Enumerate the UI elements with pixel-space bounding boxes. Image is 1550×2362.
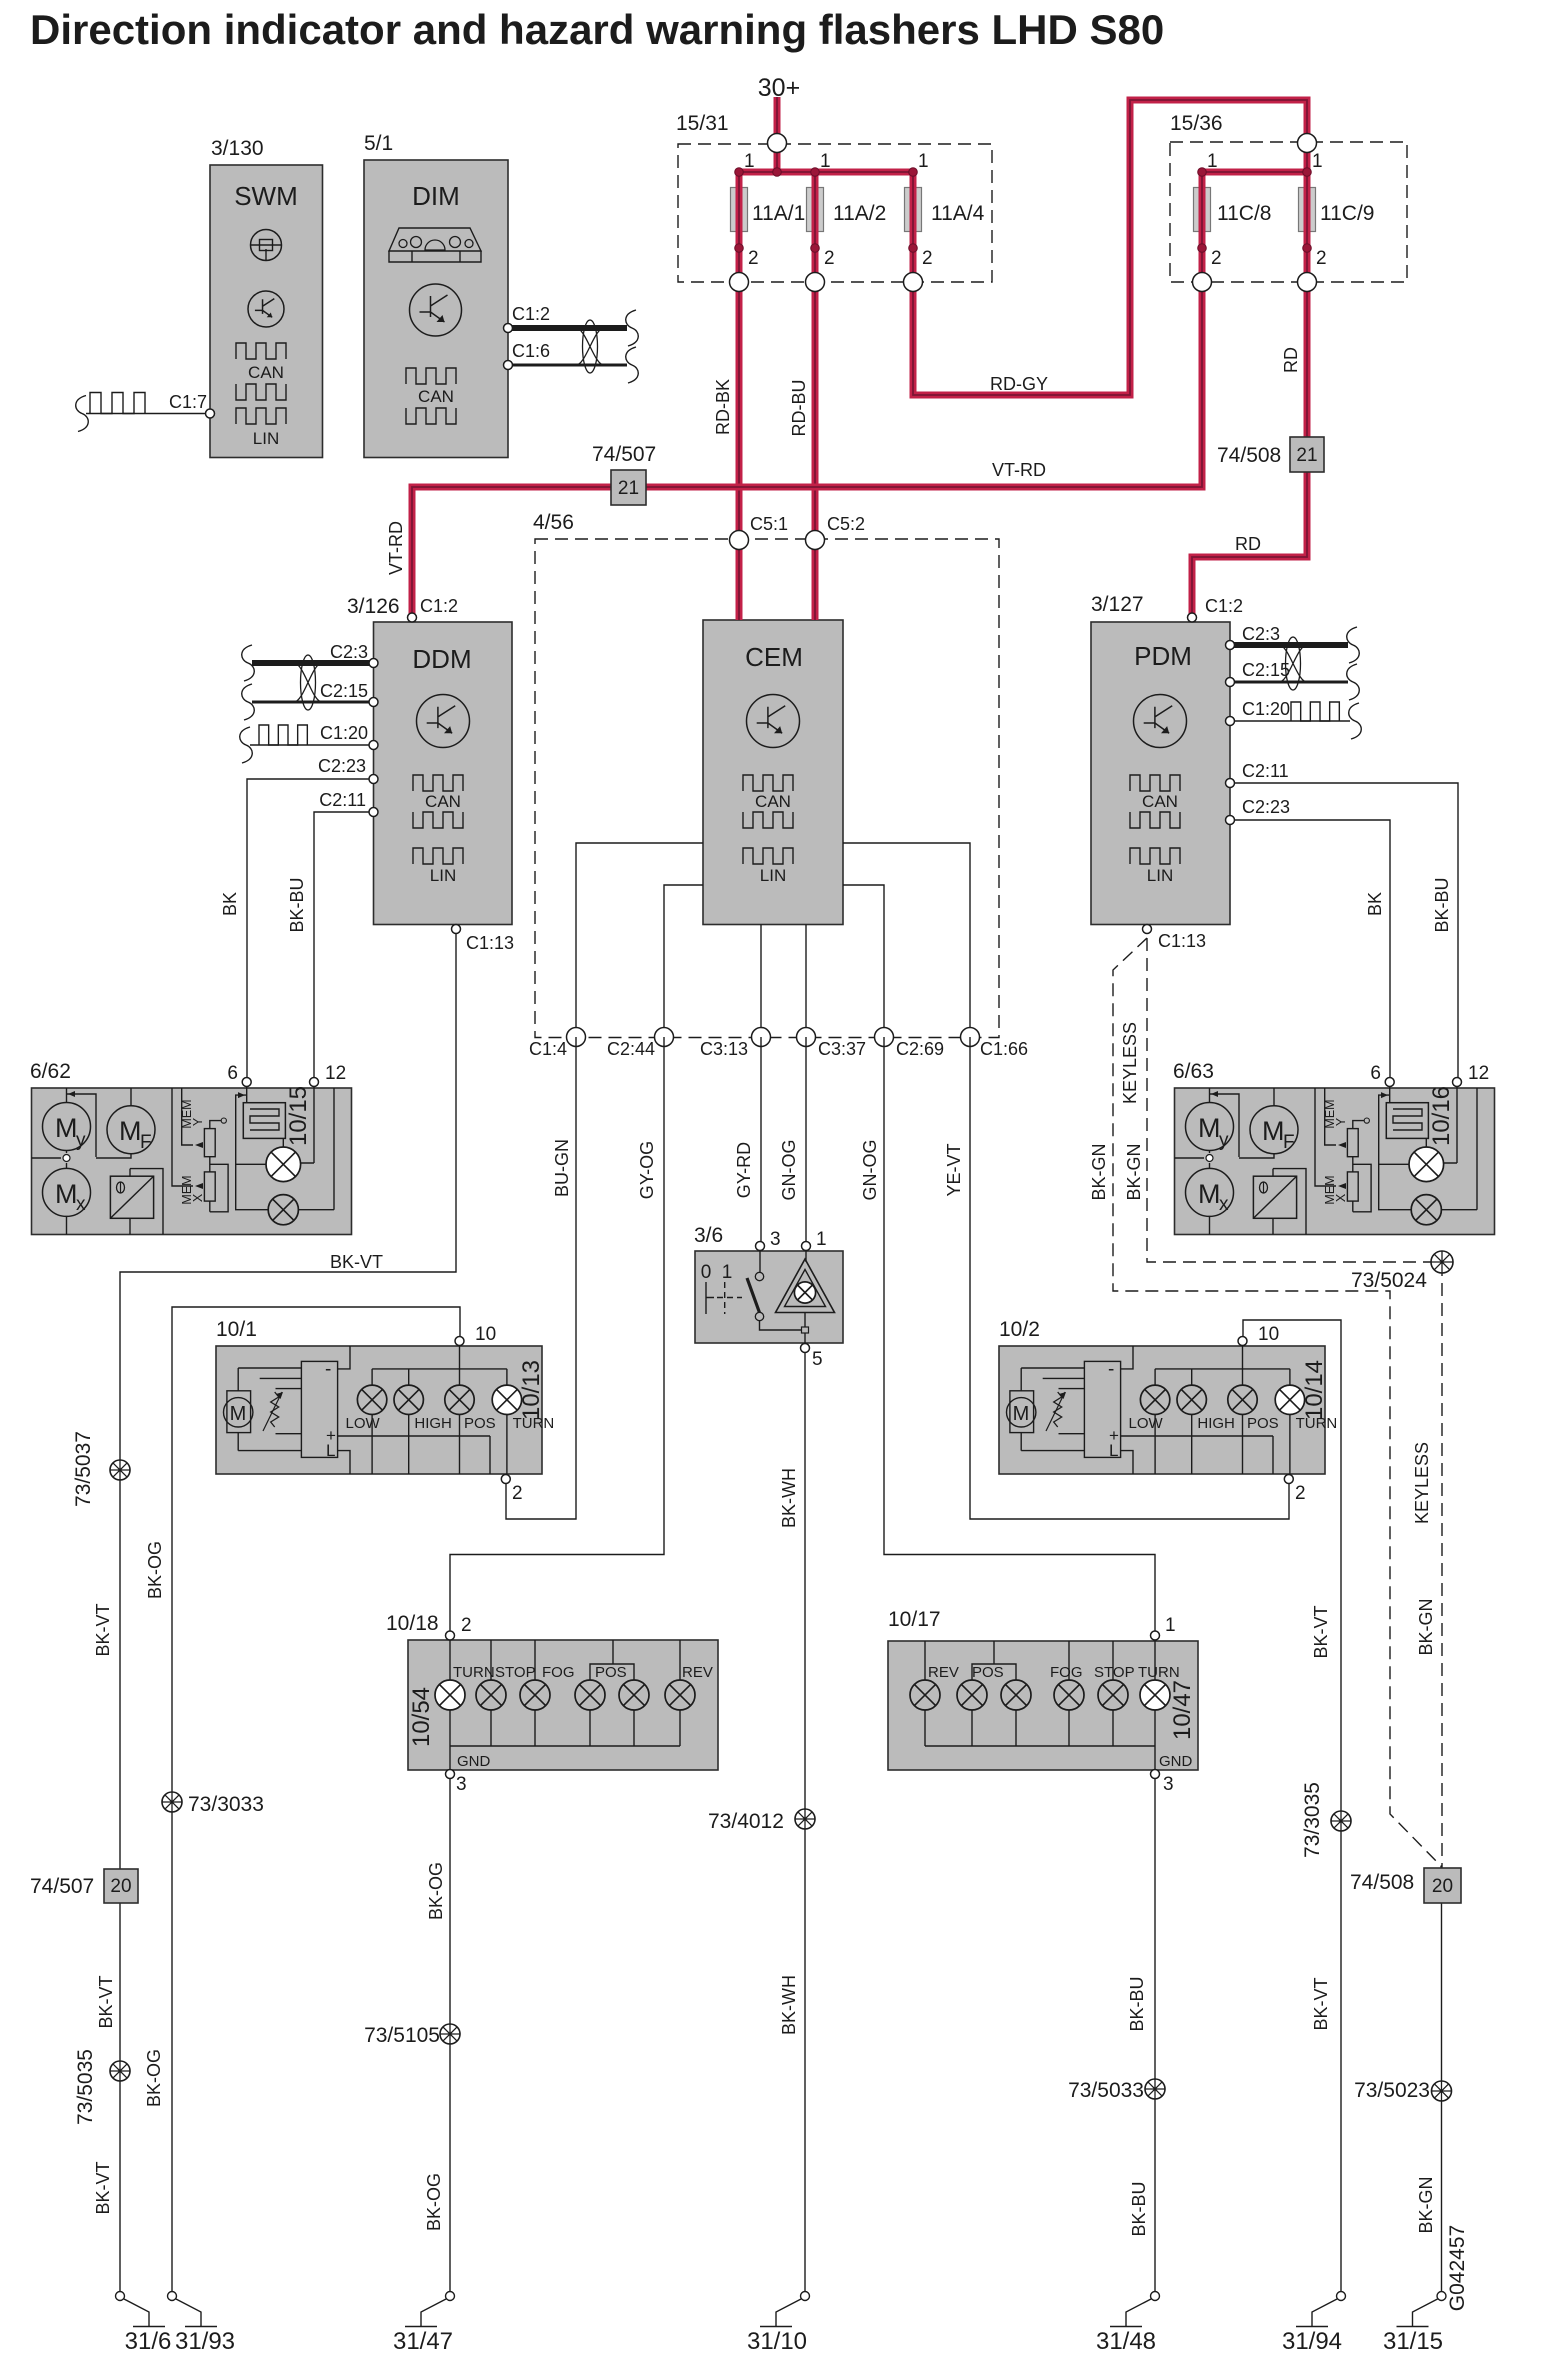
svg-text:-: - xyxy=(325,1359,331,1380)
svg-text:STOP: STOP xyxy=(1094,1664,1135,1681)
svg-text:BK-BU: BK-BU xyxy=(1127,1976,1147,2031)
svg-text:GN-OG: GN-OG xyxy=(779,1140,799,1201)
wire CEM C1:66 xyxy=(843,843,970,1037)
wire 30+ feed xyxy=(758,74,800,134)
svg-text:BK-GN: BK-GN xyxy=(1416,2176,1436,2233)
svg-text:STOP: STOP xyxy=(495,1664,536,1681)
svg-text:C1:66: C1:66 xyxy=(980,1039,1028,1059)
svg-text:12: 12 xyxy=(325,1063,346,1084)
connector DDM C2:3 xyxy=(252,642,374,663)
svg-text:20: 20 xyxy=(1432,1876,1453,1897)
connector C3:13 xyxy=(700,1028,771,1060)
svg-text:2: 2 xyxy=(512,1483,523,1504)
svg-text:X: X xyxy=(1334,1193,1348,1202)
svg-text:74/508: 74/508 xyxy=(1350,1871,1414,1894)
ground 31/93 xyxy=(168,2292,236,2356)
svg-text:M: M xyxy=(119,1116,142,1146)
svg-text:LIN: LIN xyxy=(760,866,786,885)
connector C5:2 xyxy=(806,514,866,550)
svg-text:30+: 30+ xyxy=(758,74,800,102)
connector DIM C1:6 xyxy=(508,341,627,365)
splice 73/5023 xyxy=(1354,2079,1451,2102)
connector DDM C2:15 xyxy=(252,681,374,702)
svg-text:G042457: G042457 xyxy=(1446,2225,1469,2311)
junction dots 15/36 xyxy=(1198,168,1312,253)
svg-text:BK-BU: BK-BU xyxy=(1432,877,1452,932)
svg-text:BK-OG: BK-OG xyxy=(426,1862,446,1920)
svg-text:20: 20 xyxy=(110,1876,131,1897)
node 11C/9 pin 2 out xyxy=(1298,273,1317,292)
svg-text:10/14: 10/14 xyxy=(1301,1360,1328,1420)
connector SWM C1:7 xyxy=(76,392,215,432)
svg-text:LIN: LIN xyxy=(253,429,279,448)
connector C5:1 xyxy=(730,514,789,550)
svg-text:BK: BK xyxy=(220,892,240,916)
svg-text:M: M xyxy=(55,1113,78,1143)
svg-text:C1:7: C1:7 xyxy=(169,392,207,412)
svg-text:BK-GN: BK-GN xyxy=(1089,1143,1109,1200)
svg-text:15/31: 15/31 xyxy=(676,112,729,135)
svg-text:1: 1 xyxy=(820,151,831,172)
splice 73/3035 xyxy=(1301,1782,1351,1858)
svg-text:31/47: 31/47 xyxy=(393,2328,453,2355)
svg-text:C2:15: C2:15 xyxy=(320,681,368,701)
svg-text:C2:23: C2:23 xyxy=(1242,797,1290,817)
svg-text:10: 10 xyxy=(1258,1324,1279,1345)
connector PDM C2:3 xyxy=(1230,624,1348,645)
svg-text:DIM: DIM xyxy=(412,181,460,211)
headlamp 10/2 with lamp 10/14 xyxy=(999,1318,1337,1504)
svg-text:73/3033: 73/3033 xyxy=(188,1793,264,1816)
connector C2:44 xyxy=(607,1028,674,1060)
wire bus 15/31 xyxy=(739,152,913,273)
svg-text:POS: POS xyxy=(464,1415,496,1432)
svg-text:C3:37: C3:37 xyxy=(818,1039,866,1059)
wire CEM C3:13 xyxy=(760,925,762,1038)
fuse 11A/2 xyxy=(807,151,887,269)
headlamp 10/1 with lamp 10/13 xyxy=(216,1318,554,1504)
svg-text:1: 1 xyxy=(744,151,755,172)
splice 73/5035 xyxy=(74,2049,130,2125)
svg-text:21: 21 xyxy=(1296,445,1317,466)
svg-text:TURN: TURN xyxy=(1138,1664,1180,1681)
connector 74/507 pin 21 xyxy=(592,443,656,505)
svg-text:RD-BU: RD-BU xyxy=(789,380,809,437)
svg-text:RD: RD xyxy=(1235,534,1261,554)
hazard switch 3/6 xyxy=(694,1224,843,1370)
svg-text:C1:2: C1:2 xyxy=(1205,596,1243,616)
wire BK-GN ground xyxy=(1416,1903,1469,2311)
svg-text:31/10: 31/10 xyxy=(747,2328,807,2355)
fuse 11A/4 xyxy=(905,151,985,269)
svg-text:C3:13: C3:13 xyxy=(700,1039,748,1059)
svg-text:6: 6 xyxy=(227,1063,238,1084)
svg-text:10/18: 10/18 xyxy=(386,1612,439,1635)
svg-text:LOW: LOW xyxy=(1129,1415,1164,1432)
wire GN-OG to 3/6 xyxy=(779,1037,806,1246)
svg-text:11A/2: 11A/2 xyxy=(833,202,886,225)
fusebox 15/36 xyxy=(1170,112,1407,282)
wire RD-BU xyxy=(789,292,815,532)
svg-text:C2:15: C2:15 xyxy=(1242,660,1290,680)
box 4/56 xyxy=(533,511,999,1038)
svg-text:73/5037: 73/5037 xyxy=(72,1431,95,1507)
svg-text:REV: REV xyxy=(682,1664,713,1681)
svg-text:POS: POS xyxy=(972,1664,1004,1681)
svg-text:BK-BU: BK-BU xyxy=(287,877,307,932)
svg-text:4/56: 4/56 xyxy=(533,511,574,534)
wire BK-WH xyxy=(779,1348,805,2296)
svg-text:10/47: 10/47 xyxy=(1169,1680,1196,1740)
svg-text:BU-GN: BU-GN xyxy=(552,1139,572,1197)
svg-text:10/13: 10/13 xyxy=(518,1360,545,1420)
svg-text:Y: Y xyxy=(1334,1117,1348,1126)
svg-text:BK-VT: BK-VT xyxy=(93,2161,113,2214)
svg-text:C1:4: C1:4 xyxy=(529,1039,567,1059)
twisted pair DDM xyxy=(242,645,322,720)
svg-text:6/62: 6/62 xyxy=(30,1060,71,1083)
svg-text:GY-OG: GY-OG xyxy=(637,1141,657,1199)
fuse 11C/9 xyxy=(1299,151,1375,269)
svg-text:X: X xyxy=(191,1193,205,1202)
wire PDM C2:23 BK xyxy=(1230,797,1390,1084)
svg-text:BK-VT: BK-VT xyxy=(93,1603,113,1656)
svg-text:CEM: CEM xyxy=(745,642,803,672)
svg-text:SWM: SWM xyxy=(234,181,298,211)
svg-text:C1:20: C1:20 xyxy=(1242,699,1290,719)
svg-text:1: 1 xyxy=(722,1262,733,1283)
svg-text:PDM: PDM xyxy=(1134,641,1192,671)
svg-text:YE-VT: YE-VT xyxy=(944,1143,964,1196)
svg-text:73/4012: 73/4012 xyxy=(708,1810,784,1833)
svg-text:73/5033: 73/5033 xyxy=(1068,2079,1144,2102)
module PDM 3/127 xyxy=(1091,593,1230,925)
svg-text:5: 5 xyxy=(812,1349,823,1370)
fusebox 15/31 xyxy=(676,112,992,282)
wire RD-GY xyxy=(913,100,1307,395)
svg-text:3/130: 3/130 xyxy=(211,137,264,160)
wire 10/17 ground BK-BU xyxy=(1127,1774,1155,2296)
svg-text:1: 1 xyxy=(1312,151,1323,172)
wire CEM C2:44 xyxy=(664,885,703,1037)
rear lamp cluster 10/17 with lamps 10/47 xyxy=(888,1608,1198,1795)
svg-text:10/15: 10/15 xyxy=(285,1086,312,1146)
wire bus 15/36 xyxy=(1202,152,1307,273)
svg-text:F: F xyxy=(140,1132,152,1153)
module CEM xyxy=(703,620,843,925)
splice 73/4012 xyxy=(708,1809,815,1833)
wire DDM C2:23 BK xyxy=(220,756,374,1082)
svg-text:RD: RD xyxy=(1281,347,1301,373)
svg-text:M: M xyxy=(55,1179,78,1209)
module DIM 5/1 xyxy=(364,132,508,458)
svg-text:L: L xyxy=(326,1441,335,1460)
svg-text:C2:44: C2:44 xyxy=(607,1039,655,1059)
connector PDM C2:15 xyxy=(1230,660,1348,682)
connector 74/508 pin 20 xyxy=(1350,1868,1461,1903)
svg-text:BK: BK xyxy=(1365,892,1385,916)
wire CEM C1:4 xyxy=(576,843,703,1037)
svg-text:10/1: 10/1 xyxy=(216,1318,257,1341)
connector DIM C1:2 xyxy=(508,304,627,328)
svg-text:31/93: 31/93 xyxy=(175,2328,235,2355)
svg-text:DDM: DDM xyxy=(412,644,471,674)
connector DDM C1:20 xyxy=(240,723,374,763)
svg-text:BK-BU: BK-BU xyxy=(1129,2181,1149,2236)
svg-text:31/6: 31/6 xyxy=(125,2328,172,2355)
svg-text:GN-OG: GN-OG xyxy=(860,1140,880,1201)
rear lamp cluster 10/18 with lamps 10/54 xyxy=(386,1612,718,1795)
svg-text:F: F xyxy=(1283,1132,1295,1153)
svg-text:10: 10 xyxy=(475,1324,496,1345)
svg-text:21: 21 xyxy=(618,478,639,499)
wire 10/18 ground BK-OG xyxy=(424,1774,450,2296)
svg-text:2: 2 xyxy=(461,1615,472,1636)
connector C1:66 xyxy=(961,1028,1029,1060)
svg-text:M: M xyxy=(1262,1116,1285,1146)
ground 31/47 xyxy=(393,2292,455,2356)
svg-text:KEYLESS: KEYLESS xyxy=(1120,1022,1140,1104)
connector 74/508 pin 21 xyxy=(1217,437,1324,472)
wire DDM C2:11 BK-BU xyxy=(287,790,374,1082)
svg-text:KEYLESS: KEYLESS xyxy=(1412,1442,1432,1524)
svg-text:HIGH: HIGH xyxy=(1197,1415,1235,1432)
wire BK-VT right xyxy=(1243,1320,1341,2296)
svg-text:3: 3 xyxy=(770,1229,781,1250)
svg-text:LIN: LIN xyxy=(1147,866,1173,885)
svg-text:VT-RD: VT-RD xyxy=(992,460,1046,480)
svg-text:BK-VT: BK-VT xyxy=(96,1975,116,2028)
svg-text:6/63: 6/63 xyxy=(1173,1060,1214,1083)
svg-text:POS: POS xyxy=(1247,1415,1279,1432)
svg-text:1: 1 xyxy=(1165,1615,1176,1636)
wire PDM C1:13 KEYLESS xyxy=(1089,925,1442,1869)
svg-text:2: 2 xyxy=(1316,248,1327,269)
svg-text:15/36: 15/36 xyxy=(1170,112,1223,135)
svg-text:3: 3 xyxy=(456,1774,467,1795)
svg-text:GND: GND xyxy=(1159,1753,1193,1770)
ground 31/94 xyxy=(1282,2292,1346,2356)
svg-text:BK-VT: BK-VT xyxy=(330,1252,383,1272)
svg-text:BK-OG: BK-OG xyxy=(144,2049,164,2107)
svg-text:11A/1: 11A/1 xyxy=(752,202,805,225)
svg-text:73/5035: 73/5035 xyxy=(74,2049,97,2125)
svg-text:M: M xyxy=(1013,1403,1030,1425)
svg-text:CAN: CAN xyxy=(248,363,284,382)
svg-text:2: 2 xyxy=(1295,1483,1306,1504)
svg-text:3/127: 3/127 xyxy=(1091,593,1144,616)
svg-text:11C/9: 11C/9 xyxy=(1320,202,1374,225)
svg-text:POS: POS xyxy=(595,1664,627,1681)
svg-text:1: 1 xyxy=(816,1229,827,1250)
svg-text:Direction indicator and hazard: Direction indicator and hazard warning f… xyxy=(30,6,1164,53)
wire PDM C2:11 BK-BU xyxy=(1230,761,1458,1084)
svg-text:M: M xyxy=(1198,1179,1221,1209)
svg-text:GND: GND xyxy=(457,1753,491,1770)
twisted pair PDM xyxy=(1279,627,1359,700)
svg-text:CAN: CAN xyxy=(755,792,791,811)
svg-text:31/94: 31/94 xyxy=(1282,2328,1342,2355)
svg-text:BK-OG: BK-OG xyxy=(424,2173,444,2231)
svg-text:73/3035: 73/3035 xyxy=(1301,1782,1324,1858)
ground 31/48 xyxy=(1096,2292,1160,2356)
junction dots 15/31 xyxy=(735,168,918,253)
ground 31/15 xyxy=(1383,2292,1446,2356)
svg-text:CAN: CAN xyxy=(425,792,461,811)
wire YE-VT xyxy=(944,1037,1289,1519)
svg-text:C1:13: C1:13 xyxy=(466,933,514,953)
svg-text:10/54: 10/54 xyxy=(408,1687,435,1747)
svg-text:BK-VT: BK-VT xyxy=(1311,1605,1331,1658)
svg-text:73/5024: 73/5024 xyxy=(1351,1269,1427,1292)
svg-text:GY-RD: GY-RD xyxy=(734,1142,754,1198)
svg-text:2: 2 xyxy=(748,248,759,269)
svg-text:11A/4: 11A/4 xyxy=(931,202,985,225)
node 11A/2 pin 2 out xyxy=(806,273,825,292)
svg-text:M: M xyxy=(230,1403,247,1425)
wire GN-OG to 10/17 xyxy=(860,1037,1155,1635)
fuse 11A/1 xyxy=(731,151,806,269)
svg-text:C1:13: C1:13 xyxy=(1158,931,1206,951)
svg-text:10/2: 10/2 xyxy=(999,1318,1040,1341)
svg-text:73/5105: 73/5105 xyxy=(364,2024,440,2047)
connector 74/507 pin 20 xyxy=(30,1869,138,1903)
wire RD-BK xyxy=(713,292,739,532)
module SWM 3/130 xyxy=(210,137,323,458)
svg-text:2: 2 xyxy=(922,248,933,269)
wire GY-OG xyxy=(450,1037,664,1635)
svg-text:REV: REV xyxy=(928,1664,959,1681)
svg-text:C2:3: C2:3 xyxy=(1242,624,1280,644)
wire DDM C1:13 BK-VT xyxy=(93,925,514,2297)
svg-text:C5:2: C5:2 xyxy=(827,514,865,534)
svg-text:1: 1 xyxy=(1207,151,1218,172)
svg-text:y: y xyxy=(1219,1130,1229,1151)
wire GY-RD xyxy=(734,1037,761,1246)
connector C1:4 xyxy=(529,1028,586,1060)
svg-text:73/5023: 73/5023 xyxy=(1354,2079,1430,2102)
svg-text:L: L xyxy=(1109,1441,1118,1460)
svg-text:TURN: TURN xyxy=(453,1664,495,1681)
svg-text:5/1: 5/1 xyxy=(364,132,393,155)
svg-text:BK-WH: BK-WH xyxy=(779,1468,799,1528)
svg-text:0: 0 xyxy=(701,1262,712,1283)
mirror module 6/63 with lamp 10/16 xyxy=(1173,1060,1495,1235)
svg-text:2: 2 xyxy=(824,248,835,269)
svg-text:10/16: 10/16 xyxy=(1428,1086,1455,1146)
svg-text:12: 12 xyxy=(1468,1063,1489,1084)
wire RD xyxy=(1192,292,1307,619)
mirror module 6/62 with lamp 10/15 xyxy=(30,1060,352,1235)
svg-text:74/507: 74/507 xyxy=(30,1875,94,1898)
svg-text:FOG: FOG xyxy=(542,1664,575,1681)
svg-text:11C/8: 11C/8 xyxy=(1217,202,1271,225)
svg-text:Y: Y xyxy=(191,1117,205,1126)
svg-text:C2:11: C2:11 xyxy=(1242,761,1289,781)
node 11A/1 pin 2 out xyxy=(730,273,749,292)
svg-text:3/6: 3/6 xyxy=(694,1224,723,1247)
connector C3:37 xyxy=(797,1028,867,1060)
wire C5:2 to CEM xyxy=(812,549,819,620)
svg-text:2: 2 xyxy=(1211,248,1222,269)
svg-text:BK-VT: BK-VT xyxy=(1311,1977,1331,2030)
module DDM 3/126 xyxy=(347,595,512,925)
svg-text:C2:69: C2:69 xyxy=(896,1039,944,1059)
svg-text:31/48: 31/48 xyxy=(1096,2328,1156,2355)
splice 73/3033 xyxy=(162,1792,264,1816)
svg-text:C1:6: C1:6 xyxy=(512,341,550,361)
splice 73/5024 xyxy=(1351,1251,1453,1292)
svg-text:RD-BK: RD-BK xyxy=(713,379,733,435)
svg-text:RD-GY: RD-GY xyxy=(990,374,1048,394)
wire BU-GN xyxy=(506,1037,576,1519)
connector PDM C1:20 xyxy=(1230,699,1361,739)
svg-text:x: x xyxy=(76,1194,86,1215)
svg-text:C1:2: C1:2 xyxy=(512,304,550,324)
svg-text:74/508: 74/508 xyxy=(1217,444,1281,467)
twisted pair DIM xyxy=(504,310,639,383)
svg-text:3/126: 3/126 xyxy=(347,595,400,618)
svg-text:C2:3: C2:3 xyxy=(330,642,368,662)
svg-text:M: M xyxy=(1198,1113,1221,1143)
svg-text:x: x xyxy=(1219,1194,1229,1215)
svg-text:1: 1 xyxy=(918,151,929,172)
svg-text:74/507: 74/507 xyxy=(592,443,656,466)
svg-text:HIGH: HIGH xyxy=(414,1415,452,1432)
svg-text:LOW: LOW xyxy=(346,1415,381,1432)
svg-text:BK-WH: BK-WH xyxy=(779,1975,799,2035)
svg-text:10/17: 10/17 xyxy=(888,1608,941,1631)
node feed 15/36 xyxy=(1298,134,1317,153)
wire C5:1 to CEM xyxy=(736,549,743,620)
connector DDM C1:2 xyxy=(408,596,459,622)
splice 73/5033 xyxy=(1068,2079,1165,2102)
svg-text:BK-GN: BK-GN xyxy=(1124,1143,1144,1200)
node 30+ at 15/31 xyxy=(768,134,787,153)
ground 31/10 xyxy=(747,2292,810,2356)
svg-text:C1:2: C1:2 xyxy=(420,596,458,616)
fuse 11C/8 xyxy=(1194,151,1272,269)
wire BK-OG left xyxy=(144,1307,460,2296)
svg-text:-: - xyxy=(1108,1359,1114,1380)
splice 73/5037 xyxy=(72,1431,130,1507)
svg-text:31/15: 31/15 xyxy=(1383,2328,1443,2355)
svg-text:C1:20: C1:20 xyxy=(320,723,368,743)
svg-text:C5:1: C5:1 xyxy=(750,514,788,534)
node 11C/8 pin 2 out xyxy=(1193,273,1212,292)
svg-text:3: 3 xyxy=(1163,1774,1174,1795)
svg-text:VT-RD: VT-RD xyxy=(386,521,406,575)
splice 73/5105 xyxy=(364,2024,460,2047)
svg-text:FOG: FOG xyxy=(1050,1664,1083,1681)
node 11A/4 pin 2 out xyxy=(904,273,923,292)
svg-text:y: y xyxy=(76,1130,86,1151)
svg-text:CAN: CAN xyxy=(1142,792,1178,811)
svg-text:BK-OG: BK-OG xyxy=(145,1541,165,1599)
ground 31/6 xyxy=(116,2292,172,2356)
svg-text:6: 6 xyxy=(1370,1063,1381,1084)
wire CEM C3:37 xyxy=(805,925,807,1038)
svg-text:C2:11: C2:11 xyxy=(319,790,366,810)
connector C2:69 xyxy=(875,1028,945,1060)
wire CEM C2:69 xyxy=(843,885,884,1037)
connector PDM C1:2 xyxy=(1188,596,1244,622)
svg-text:BK-GN: BK-GN xyxy=(1416,1598,1436,1655)
svg-text:C2:23: C2:23 xyxy=(318,756,366,776)
svg-text:LIN: LIN xyxy=(430,866,456,885)
svg-text:CAN: CAN xyxy=(418,387,454,406)
wire VT-RD xyxy=(386,292,1202,619)
